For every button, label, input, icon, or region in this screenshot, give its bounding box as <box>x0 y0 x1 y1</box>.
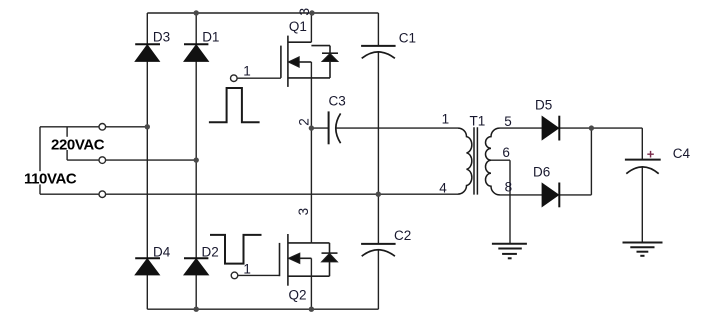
wire Q1 source / node 2 / Q2 drain column <box>310 62 312 243</box>
diode D3 <box>135 44 160 61</box>
diode D6 <box>542 183 559 208</box>
wire bottom rail <box>147 308 378 310</box>
transformer T1 core <box>474 127 477 194</box>
junction pin4 line / C column <box>376 192 381 197</box>
svg-text:6: 6 <box>502 145 510 160</box>
svg-text:+: + <box>647 146 655 161</box>
svg-text:3: 3 <box>296 8 312 16</box>
svg-text:C4: C4 <box>673 146 691 161</box>
wire transformer pin 5 to D5 anode <box>500 127 543 129</box>
wire transformer pin 6 center tap to ground <box>491 160 510 244</box>
svg-text:1: 1 <box>243 262 251 277</box>
junction bottom rail / Q2 source <box>309 307 314 312</box>
wire D3/D4 column <box>146 13 148 309</box>
transformer T1 secondary winding upper (pins 5-6) <box>485 128 499 160</box>
svg-text:1: 1 <box>442 112 450 127</box>
svg-text:C3: C3 <box>329 94 346 109</box>
svg-text:T1: T1 <box>470 114 486 129</box>
wire 220VAC tap tick <box>66 127 68 160</box>
wire middle input terminal to D1/D2 column <box>67 159 196 161</box>
svg-text:1: 1 <box>243 63 251 78</box>
wire Q2 source to bottom rail <box>310 258 312 309</box>
svg-text:C2: C2 <box>394 228 411 243</box>
junction mid line / D1 column <box>194 157 199 162</box>
wire input bracket <box>39 127 41 194</box>
capacitor C2 <box>361 244 396 256</box>
wire D6 cathode riser <box>559 128 591 195</box>
wire C3 to transformer pin 1 <box>336 127 458 129</box>
terminal Q1 gate pin 1 <box>231 75 238 82</box>
ground (transformer center tap) <box>492 244 527 258</box>
svg-text:D1: D1 <box>202 30 219 45</box>
wire D5 cathode to C4 <box>559 127 642 129</box>
junction node 2 <box>309 125 314 130</box>
svg-text:5: 5 <box>504 114 512 129</box>
svg-text:3: 3 <box>296 208 311 216</box>
junction top rail / D1 column <box>194 10 199 15</box>
gate pulse waveform Q1 <box>209 88 260 122</box>
terminal 110VAC bottom <box>99 191 106 198</box>
svg-text:220VAC: 220VAC <box>51 136 105 153</box>
svg-text:Q1: Q1 <box>289 19 307 34</box>
svg-text:D5: D5 <box>535 98 552 113</box>
transformer T1 secondary winding lower (pins 6-8) <box>486 160 500 195</box>
svg-text:110VAC: 110VAC <box>24 170 77 187</box>
junction bottom rail / D2 column <box>194 307 199 312</box>
wire C4 top lead <box>641 128 643 160</box>
svg-text:2: 2 <box>297 118 312 126</box>
svg-text:D4: D4 <box>153 244 171 259</box>
diode D5 <box>542 116 559 141</box>
transformer T1 primary winding <box>458 128 472 194</box>
terminal middle <box>99 157 106 164</box>
wire bottom input terminal to transformer pin 4 <box>40 193 458 195</box>
wire node 2 to C3 <box>311 127 328 129</box>
junction top rail / Q1 drain <box>309 10 314 15</box>
junction D5 cathode node <box>589 125 594 130</box>
capacitor C1 <box>361 46 396 58</box>
svg-text:D6: D6 <box>533 165 550 180</box>
diode D1 <box>184 44 208 61</box>
wire Q1 drain to top rail <box>310 13 312 42</box>
terminal 220VAC top <box>99 124 106 131</box>
terminal Q2 gate pin 1 <box>231 272 238 279</box>
svg-text:C1: C1 <box>399 31 416 46</box>
diode D4 <box>135 258 160 275</box>
wire Q1 gate terminal <box>234 77 281 79</box>
transistor Q2 <box>280 234 338 286</box>
svg-text:D3: D3 <box>153 29 170 44</box>
wire Q2 gate terminal <box>235 274 280 276</box>
capacitor C3 <box>329 111 341 144</box>
wire C4 bottom lead to ground <box>641 167 643 243</box>
junction 220VAC line / D3 column <box>145 124 150 129</box>
wire top rail <box>147 12 378 14</box>
svg-text:Q2: Q2 <box>289 288 307 303</box>
diode D2 <box>184 258 208 275</box>
ground (C4 negative) <box>623 243 663 256</box>
wire transformer pin 8 to D6 anode <box>500 194 543 196</box>
svg-text:D2: D2 <box>202 244 219 259</box>
capacitor C4 <box>625 160 661 174</box>
transistor Q1 <box>281 36 338 87</box>
svg-text:4: 4 <box>439 180 447 195</box>
gate pulse waveform Q2 (inverted) <box>210 235 262 264</box>
label 220VAC <box>50 136 107 153</box>
svg-text:8: 8 <box>505 179 513 194</box>
label 110VAC <box>23 170 78 187</box>
wire top input terminal to D3 column <box>40 126 147 128</box>
wire D1/D2 column <box>195 13 197 309</box>
wire C1/C2 column <box>377 13 379 309</box>
